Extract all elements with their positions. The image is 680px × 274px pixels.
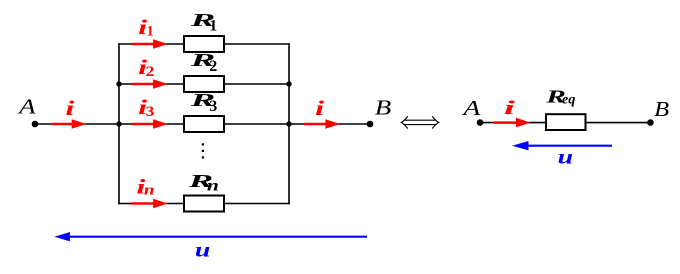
voltage arrow u (left circuit) — [54, 232, 367, 241]
equivalence symbol — [401, 117, 438, 129]
right bus wire — [288, 43, 290, 204]
svg-text:3: 3 — [146, 104, 155, 120]
junction dot right bus row 2 — [286, 81, 291, 86]
svg-text:A: A — [17, 95, 36, 119]
branch 1 wire — [118, 43, 290, 45]
label i1 — [138, 15, 153, 40]
svg-text:1: 1 — [209, 18, 217, 35]
svg-text:A: A — [461, 96, 481, 120]
label Req — [545, 87, 576, 108]
current arrow i2 — [132, 79, 168, 89]
svg-text:2: 2 — [209, 58, 217, 75]
resistor R2 — [184, 76, 224, 92]
svg-text:i: i — [504, 99, 517, 119]
resistor Rn — [184, 196, 224, 212]
svg-text:u: u — [195, 240, 211, 262]
label i3 — [138, 95, 154, 120]
svg-text:i: i — [315, 96, 324, 120]
current arrow in — [132, 199, 168, 209]
junction dot left bus row 2 — [116, 81, 121, 86]
svg-text:u: u — [558, 146, 574, 168]
svg-text:n: n — [207, 177, 219, 194]
label R3 — [189, 90, 218, 115]
junction dot right bus main — [286, 121, 291, 126]
current arrow i3 — [132, 119, 168, 129]
branch n wire — [118, 203, 290, 205]
svg-text:B: B — [654, 97, 669, 121]
branch 3 wire — [119, 123, 289, 125]
label in — [136, 174, 154, 198]
current arrow i (right circuit) — [494, 118, 531, 128]
wire A to left bus — [35, 123, 119, 125]
branch 2 wire — [119, 83, 289, 85]
wire A to Req — [480, 122, 546, 124]
wire right bus to B — [289, 123, 370, 125]
resistor R3 — [184, 116, 224, 132]
current arrow i (main left) — [51, 119, 86, 129]
svg-text:3: 3 — [209, 98, 217, 115]
current arrow i1 — [132, 39, 168, 49]
junction dot left bus main — [116, 121, 121, 126]
node A terminal dot — [32, 121, 39, 128]
svg-text:n: n — [144, 182, 155, 198]
current arrow i (main right) — [304, 119, 340, 129]
label Rn — [187, 171, 219, 194]
resistor R1 — [184, 36, 224, 52]
voltage arrow u (right circuit) — [512, 141, 612, 150]
label R1 — [189, 10, 218, 35]
left bus wire — [118, 43, 120, 204]
svg-text:1: 1 — [147, 24, 154, 40]
node B terminal dot (right circuit) — [647, 119, 654, 126]
label R2 — [189, 50, 218, 75]
resistor Req — [546, 114, 586, 130]
ellipsis dots — [202, 143, 204, 158]
wire Req to B — [586, 122, 650, 124]
label i2 — [138, 55, 154, 80]
node A terminal dot (right circuit) — [477, 119, 484, 126]
svg-text:B: B — [375, 96, 392, 120]
node B terminal dot — [367, 121, 374, 128]
svg-text:2: 2 — [146, 64, 155, 80]
svg-text:eq: eq — [562, 93, 576, 108]
svg-text:i: i — [65, 96, 74, 120]
